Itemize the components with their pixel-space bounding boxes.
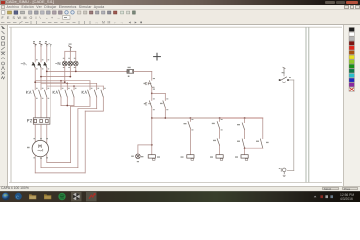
wire motor bottom W2	[47, 155, 71, 163]
sheet top border	[9, 26, 342, 28]
wire control bus	[152, 117, 220, 119]
breaker Q1 pole 2	[38, 62, 41, 67]
wire tap row 1 to KM2/KM3	[35, 80, 90, 82]
color palette	[343, 25, 360, 186]
supply terminal L3	[45, 43, 48, 46]
sheet left border	[10, 27, 12, 183]
wire motor bottom U2	[35, 155, 85, 173]
wire lamp1 drop	[64, 66, 66, 82]
wire S1 to bus	[151, 108, 153, 118]
node lamp3	[75, 71, 77, 73]
node lamp branch	[151, 144, 153, 146]
switch S2 top right	[279, 67, 289, 82]
status bar	[0, 186, 360, 191]
contact rung4 lower	[242, 139, 244, 148]
contact KT (rung3 lower)	[217, 139, 219, 146]
node bus-r4	[244, 117, 246, 119]
wire parallel join	[245, 147, 263, 149]
lamp feed terminal	[69, 46, 72, 52]
contactor KM1 poles	[33, 90, 47, 97]
coil KT1	[241, 155, 248, 161]
lamp P2	[68, 61, 73, 66]
node below fuse	[128, 76, 130, 77]
wire to lamp H1	[138, 144, 152, 146]
contact KM1 aux	[163, 101, 165, 108]
node tap KM2 a	[60, 80, 62, 82]
motor M 3~	[32, 140, 48, 156]
wire bus L3 to control	[47, 70, 127, 72]
node bus-aux	[164, 117, 166, 119]
taskbar	[0, 191, 360, 202]
wire KM3 pole tops	[90, 81, 103, 90]
wire parallel branch right	[262, 118, 264, 139]
wire bus L2 to lamp2	[41, 76, 70, 78]
toolbar row 1 icons (SVG)	[0, 10, 360, 15]
wire tap row 3	[47, 85, 104, 87]
sheet right double border	[305, 27, 307, 183]
title bar	[0, 0, 360, 5]
wire KM3 bottoms to motor loops	[71, 97, 104, 173]
motor label M3	[38, 145, 43, 151]
contact KT1 (rung2)	[189, 118, 191, 121]
lamp P1	[63, 61, 68, 66]
lamp P3	[74, 61, 79, 66]
node lamp2	[69, 76, 71, 78]
toolbar row 3: wire tool icons	[0, 20, 360, 25]
wire N vertical	[49, 47, 51, 118]
label F2	[28, 120, 32, 123]
node bus-r2	[190, 117, 192, 119]
supply terminal L2	[39, 43, 42, 46]
pushbutton S0 NC	[145, 81, 154, 88]
wire KM1 pole bottoms	[35, 97, 47, 118]
wire L1 below breaker	[34, 68, 36, 90]
node bus-rail	[151, 117, 153, 119]
node bus-r3	[219, 117, 221, 119]
contactor KM3 poles	[88, 90, 104, 97]
wire fuse to rail	[134, 70, 152, 72]
wire rail to KM1 coil	[151, 118, 153, 155]
lamp bracket	[65, 51, 76, 61]
svg-text:e: e	[16, 193, 19, 200]
app icon	[1, 1, 5, 4]
node lamp1	[64, 81, 66, 83]
node branch	[151, 93, 153, 95]
svg-text:12:56 PM: 12:56 PM	[340, 193, 354, 197]
menu bar	[0, 5, 360, 10]
toolbars background	[0, 10, 360, 26]
contact parallel KM3 aux	[260, 139, 262, 148]
wire aux to bus	[164, 108, 166, 118]
node L3 tap	[46, 71, 48, 73]
label MP	[56, 62, 61, 65]
left tool column	[0, 25, 8, 186]
node tap KM2 c	[73, 85, 75, 87]
node star	[66, 105, 68, 107]
tiny pin label specks	[27, 41, 291, 169]
supply terminal L1	[33, 43, 36, 46]
wire L3 below breaker	[46, 68, 48, 90]
sheet bottom border	[9, 182, 342, 184]
fuse F3	[127, 70, 134, 74]
contact KM2 aux (rung3)	[219, 118, 221, 121]
label KM3	[82, 91, 87, 94]
bell component	[281, 168, 286, 177]
wire switch to bell	[287, 80, 293, 171]
node rung4 join	[244, 147, 246, 149]
wire L1 vertical upper	[34, 47, 36, 63]
coil KM1	[148, 155, 155, 161]
lamp H1	[136, 154, 141, 159]
wire L2 below breaker	[40, 68, 42, 90]
wire rail S0-branch	[151, 87, 153, 100]
breaker Q1 pole 1	[32, 62, 35, 67]
svg-text:4/3/2016: 4/3/2016	[340, 197, 353, 201]
wire control rail top	[151, 71, 153, 80]
label Q1	[21, 63, 27, 66]
MDI child buttons	[344, 5, 349, 8]
wire bus L1 to lamp1	[35, 81, 65, 83]
cursor crosshair	[154, 53, 161, 60]
window buttons	[325, 1, 335, 4]
title text	[6, 0, 96, 5]
thermal relay F2	[33, 118, 50, 124]
node L2 tap	[40, 76, 42, 78]
wire L3 vertical upper	[46, 47, 48, 63]
node tap KM2 b	[66, 83, 68, 85]
wire lamp2 drop	[69, 66, 71, 77]
wire L2 vertical upper	[40, 47, 42, 63]
node L1 tap	[34, 81, 36, 83]
wire tap row 2	[41, 82, 97, 84]
toolbar row 2: letter buttons	[0, 15, 360, 20]
breaker Q1 pole 3	[44, 62, 47, 67]
wire motor bottom V2	[41, 157, 78, 168]
supply terminal N	[49, 43, 52, 46]
contact rung4 upper	[244, 118, 246, 123]
wire rung2	[189, 128, 191, 154]
wire lamp3 drop	[75, 66, 77, 72]
coil KM2	[187, 155, 194, 161]
contactor KM2 poles	[59, 90, 74, 97]
right panel	[343, 25, 360, 186]
label KM2	[53, 91, 58, 94]
pushbutton S1 NO	[145, 101, 151, 108]
coil KM3	[216, 155, 223, 161]
wire KM2 star point	[61, 97, 74, 106]
wire relay to motor	[35, 124, 47, 142]
wire KM2 pole tops	[61, 81, 74, 90]
label KM1	[27, 91, 32, 94]
wire branch to aux	[152, 92, 166, 94]
